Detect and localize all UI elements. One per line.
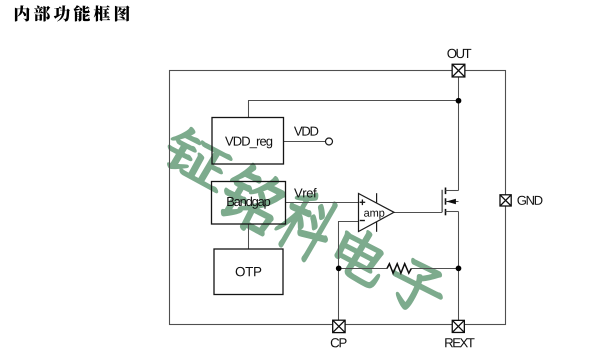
terminal GND [500,195,511,206]
node: CP/resistor junction [336,266,342,272]
wire OUT drop to MOSFET drain [458,70,460,191]
op-amp U1 [359,193,395,232]
wire op-amp minus feedback to CP [339,222,359,326]
block VDD_reg [212,118,284,165]
label Vref [294,188,317,198]
VDD pin circle [326,138,333,145]
terminal REXT [452,320,464,332]
block OTP [214,249,283,295]
op-amp plus input marker [360,200,366,206]
terminal CP [333,320,345,332]
wire source down to REXT [458,212,460,326]
label GND [517,196,542,205]
label REXT [445,338,474,347]
label OUT [447,49,471,58]
wire VDD_reg top to OUT node [249,101,459,118]
wire Vref to op-amp + [286,202,359,204]
terminal OUT [452,64,465,77]
node: source/resistor junction [456,266,462,272]
wire op-amp output to gate [394,212,442,214]
chip outline box [170,71,506,325]
op-amp minus input marker [360,220,365,222]
title 内部功能框图 [15,5,130,21]
label VDD [294,127,318,136]
wire resistor right segment [411,268,458,270]
wire resistor left segment [339,268,388,270]
label CP [331,338,347,347]
block Bandgap [212,182,286,225]
watermark 钲铭科电子 [158,122,452,323]
node: OUT/drain junction [456,98,462,104]
wire VDD output [284,141,326,143]
resistor R [387,264,411,274]
transistor M1 (NMOS) [442,188,458,216]
wire Bandgap to OTP [248,224,250,249]
